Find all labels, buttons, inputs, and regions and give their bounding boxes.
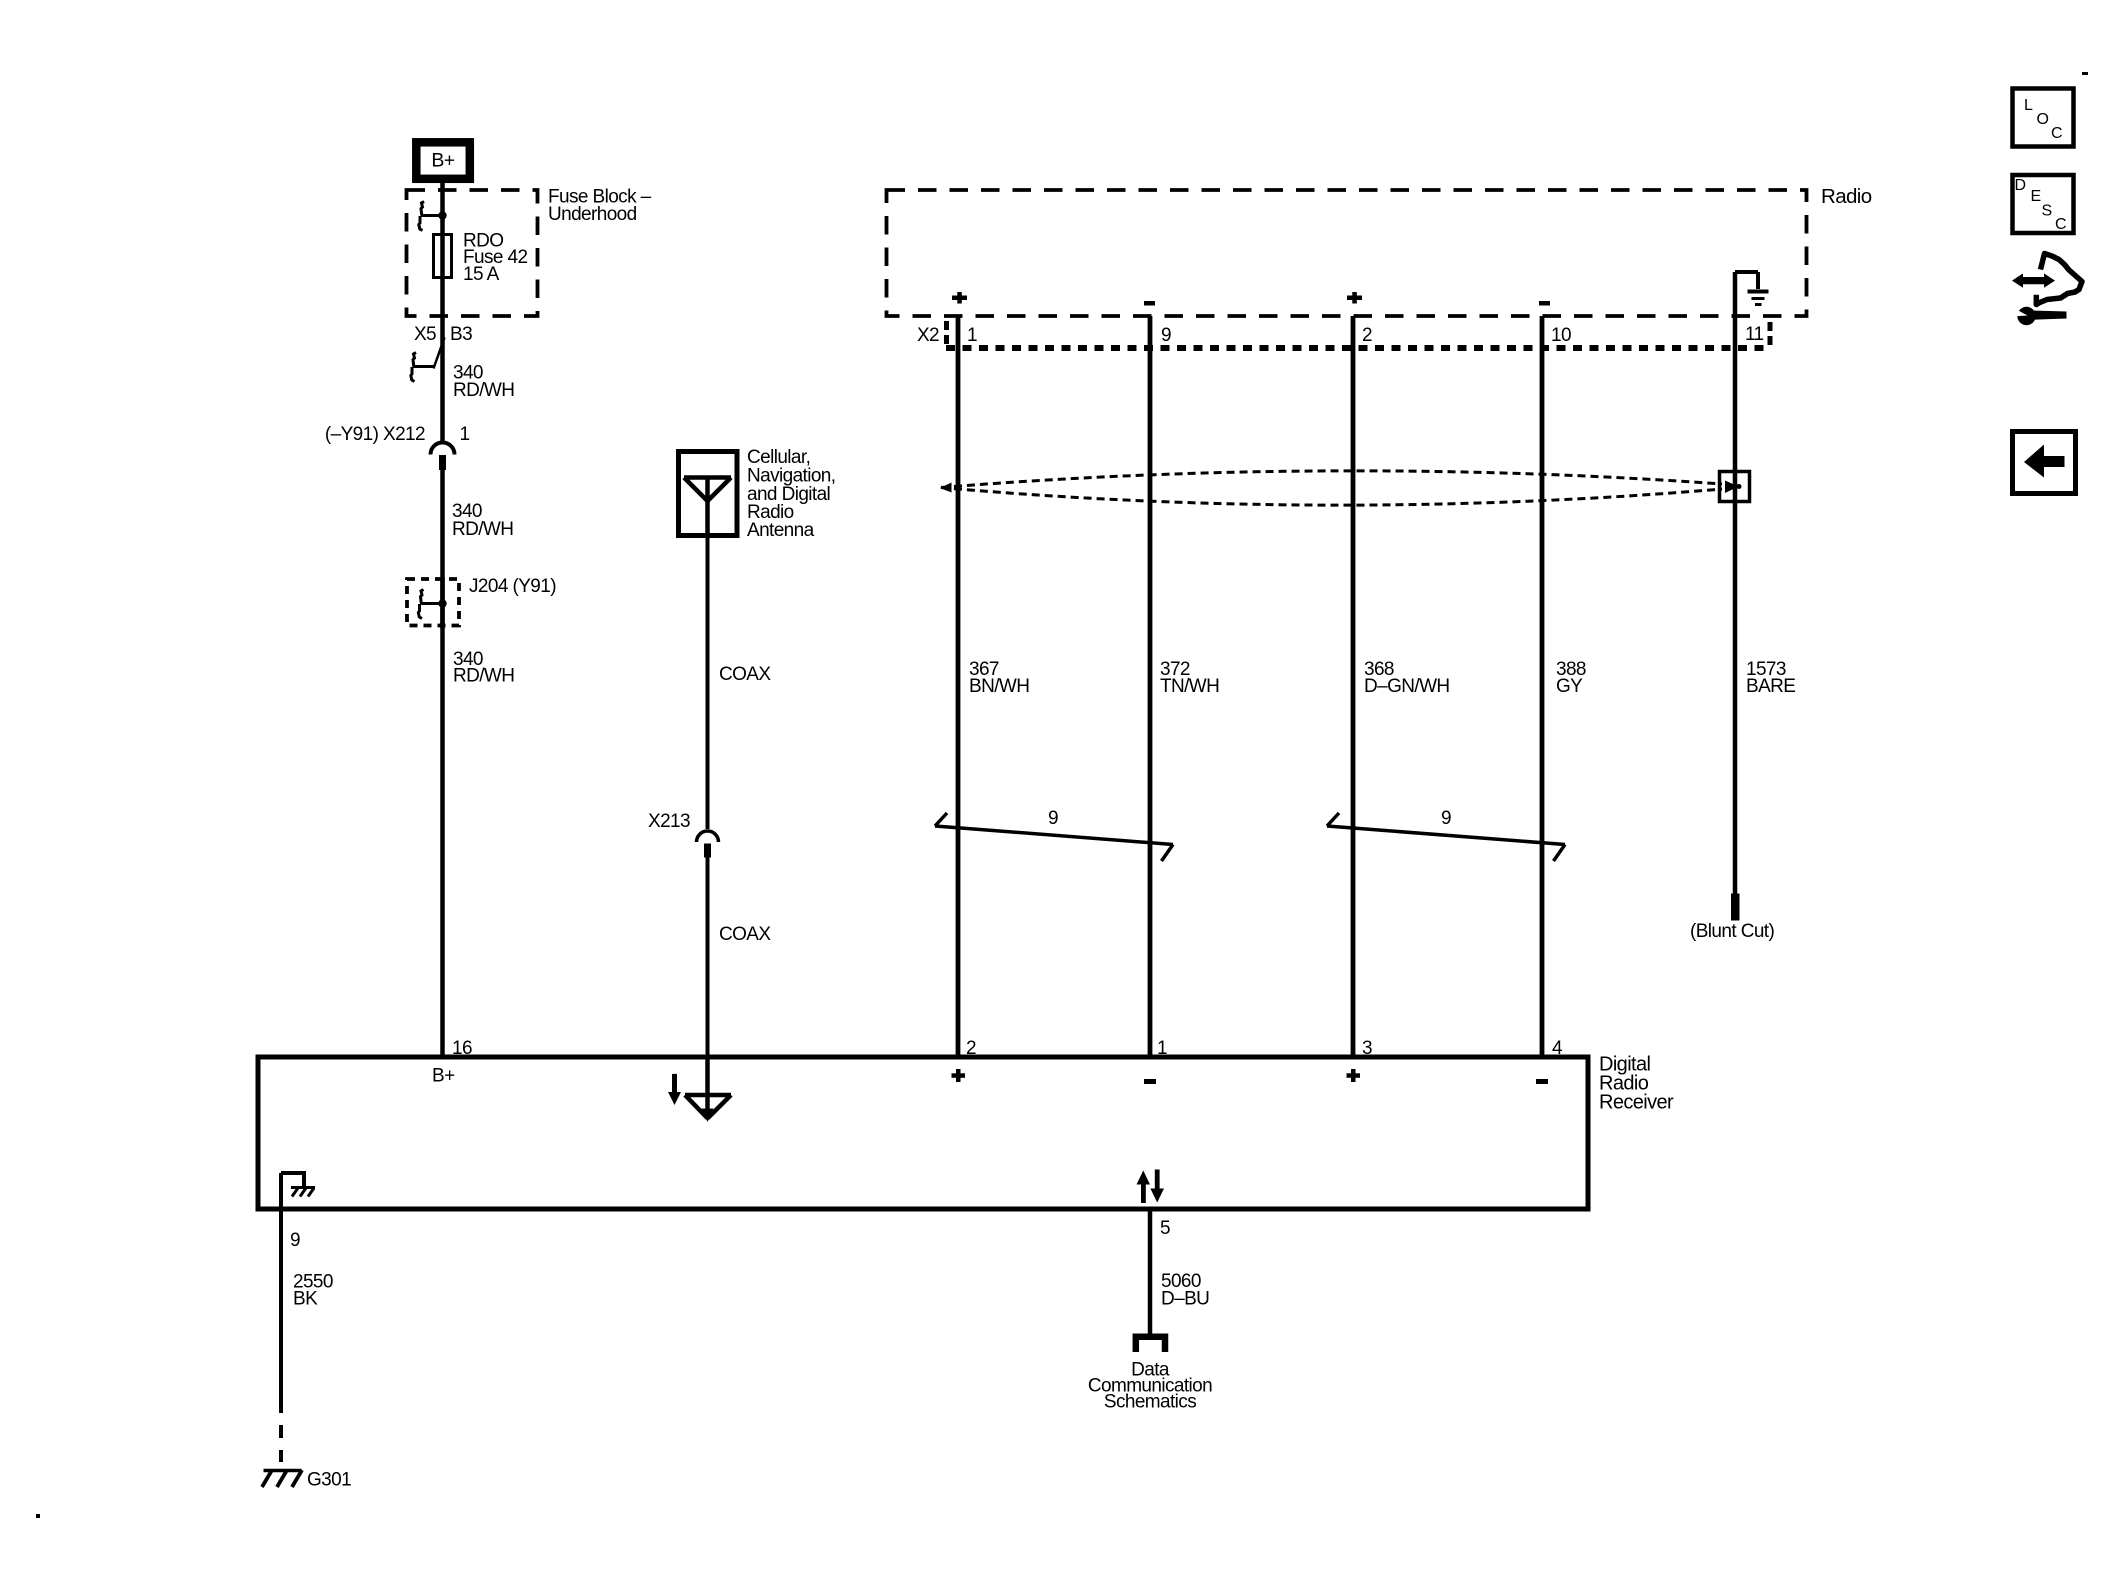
connector row X2 (dotted strip) xyxy=(946,321,1770,348)
wire label 388 GY xyxy=(1556,659,1586,697)
wire label 340 RD/WH (2) xyxy=(452,501,513,540)
wire label 340 RD/WH (1) xyxy=(453,363,514,402)
receiver polarity marks xyxy=(952,1069,1549,1084)
power feed symbol B+ xyxy=(416,142,470,179)
radio (dashed box) xyxy=(887,190,1807,316)
svg-text:S: S xyxy=(2042,203,2052,220)
scan artifact top right xyxy=(2082,72,2088,75)
svg-text:X2: X2 xyxy=(917,325,939,346)
coax wire antenna to X213 xyxy=(706,535,710,829)
svg-text:D–BU: D–BU xyxy=(1161,1289,1209,1310)
terminal clip in J204 xyxy=(418,590,442,619)
svg-text:9: 9 xyxy=(1161,325,1171,346)
svg-text:2: 2 xyxy=(1362,325,1372,346)
svg-text:B+: B+ xyxy=(432,1066,455,1087)
receiver antenna input arrow xyxy=(668,1074,681,1105)
shield termination box on drain wire xyxy=(1720,472,1750,502)
return arrow box xyxy=(2013,432,2076,494)
svg-text:E: E xyxy=(2031,188,2041,205)
wire 1573 BARE drain radio pin 11 to blunt cut xyxy=(1733,272,1738,894)
receiver pin 5 wire 5060 D-BU xyxy=(1148,1211,1153,1334)
wire label 2550 BK xyxy=(293,1272,333,1310)
receiver antenna symbol xyxy=(685,1057,731,1122)
ground G301 xyxy=(262,1470,351,1491)
svg-text:O: O xyxy=(2037,111,2049,128)
receiver pin numbers top xyxy=(452,1038,1563,1059)
shield drain crossover symbol (right pair) pin 9 xyxy=(1327,808,1565,861)
svg-text:C: C xyxy=(2051,125,2062,142)
schematic navigation icon (arrow + wrench) xyxy=(2011,254,2082,326)
svg-text:9: 9 xyxy=(1048,808,1058,829)
svg-text:4: 4 xyxy=(1552,1038,1563,1059)
connector X5 terminal B3 xyxy=(414,324,472,369)
svg-text:COAX: COAX xyxy=(719,664,771,685)
junction dot in J204 xyxy=(438,599,446,607)
antenna box (Cellular Navigation Digital Radio Antenna) xyxy=(679,452,738,536)
svg-text:10: 10 xyxy=(1551,325,1571,346)
label digital radio receiver xyxy=(1599,1054,1674,1114)
blunt cut end of drain wire xyxy=(1690,894,1774,943)
connector X213 xyxy=(648,811,719,858)
pin labels X2 row xyxy=(967,324,1764,346)
svg-text:BK: BK xyxy=(293,1289,318,1310)
svg-text:D: D xyxy=(2015,177,2026,194)
wire 372 TN/WH radio pin 9 to receiver pin 1 xyxy=(1148,316,1153,1057)
coax wire X213 to receiver xyxy=(706,857,710,1057)
wire 367 BN/WH radio pin 1 to receiver pin 2 xyxy=(956,316,961,1057)
svg-text:2: 2 xyxy=(966,1038,976,1059)
svg-text:RD/WH: RD/WH xyxy=(453,666,514,687)
svg-text:(Blunt Cut): (Blunt Cut) xyxy=(1690,921,1774,942)
fuse RDO 42 15A xyxy=(434,235,452,278)
radio polarity marks xyxy=(952,292,1550,306)
svg-text:3: 3 xyxy=(1362,1038,1372,1059)
svg-text:11: 11 xyxy=(1745,324,1764,345)
fuse block underhood (dashed box) xyxy=(407,190,538,316)
label fuse RDO 42 15A xyxy=(463,231,527,286)
inline connector X212 pin 1 label xyxy=(325,424,470,445)
svg-text:GY: GY xyxy=(1556,676,1583,697)
svg-text:1: 1 xyxy=(1157,1038,1167,1059)
svg-text:Schematics: Schematics xyxy=(1104,1392,1196,1413)
digital radio receiver box xyxy=(258,1057,1588,1209)
wire label 5060 D-BU xyxy=(1161,1271,1209,1310)
wire 340 RD/WH from X212 to J204 xyxy=(440,470,445,628)
wire label 372 TN/WH xyxy=(1160,659,1219,697)
twisted pair indicator (dashed ellipse) xyxy=(940,471,1722,505)
svg-text:BARE: BARE xyxy=(1746,676,1795,697)
DESC legend box xyxy=(2013,175,2074,233)
splice pack J204 (dashed box) xyxy=(407,579,459,626)
wire 340 RD/WH from J204 to receiver pin 16 xyxy=(440,577,445,1057)
svg-text:G301: G301 xyxy=(307,1470,351,1491)
receiver internal chassis ground pin 9 xyxy=(281,1171,315,1211)
svg-text:9: 9 xyxy=(290,1230,300,1251)
svg-text:16: 16 xyxy=(452,1038,472,1059)
svg-text:J204 (Y91): J204 (Y91) xyxy=(469,576,556,597)
LOC legend box xyxy=(2013,89,2074,147)
svg-text:B+: B+ xyxy=(431,150,454,172)
antenna symbol inside antenna box xyxy=(684,478,731,536)
svg-text:Radio: Radio xyxy=(1821,185,1872,208)
svg-text:1: 1 xyxy=(460,424,470,445)
svg-text:X5: X5 xyxy=(414,324,436,345)
wire 340 RD/WH from B+ to connector X212 xyxy=(440,182,445,441)
svg-text:1: 1 xyxy=(967,325,977,346)
label data communication schematics xyxy=(1088,1360,1212,1413)
svg-text:L: L xyxy=(2024,97,2033,114)
junction dot in fuse block xyxy=(438,211,446,219)
receiver pin 9 wire 2550 BK xyxy=(279,1211,283,1462)
svg-text:C: C xyxy=(2055,216,2066,233)
terminal clip in fuse block xyxy=(419,202,443,231)
svg-text:Underhood: Underhood xyxy=(548,204,637,225)
wire label 367 BN/WH xyxy=(969,659,1029,697)
svg-text:B3: B3 xyxy=(450,324,472,345)
svg-text:RD/WH: RD/WH xyxy=(453,380,514,401)
shield drain crossover symbol (left pair) pin 9 xyxy=(935,808,1173,861)
label antenna xyxy=(747,447,835,541)
wire label 1573 BARE xyxy=(1746,659,1795,697)
svg-text:5: 5 xyxy=(1160,1218,1170,1239)
svg-text:(–Y91) X212: (–Y91) X212 xyxy=(325,424,425,445)
label fuse block xyxy=(548,187,652,226)
svg-text:BN/WH: BN/WH xyxy=(969,676,1029,697)
svg-text:D–GN/WH: D–GN/WH xyxy=(1364,676,1450,697)
wire label 340 RD/WH (3) xyxy=(453,649,514,687)
svg-text:RD/WH: RD/WH xyxy=(452,519,513,540)
svg-text:X213: X213 xyxy=(648,811,690,832)
svg-text:Antenna: Antenna xyxy=(747,520,815,541)
svg-text:15 A: 15 A xyxy=(463,264,500,285)
radio internal ground pin 11 xyxy=(1735,272,1769,305)
connector X212 female/male terminal xyxy=(431,443,455,471)
svg-text:TN/WH: TN/WH xyxy=(1160,676,1219,697)
svg-text:9: 9 xyxy=(1441,808,1451,829)
off-page connector to data communication schematics xyxy=(1136,1337,1165,1352)
receiver CAN arrows pin 5 xyxy=(1137,1170,1165,1204)
scan artifact bottom left xyxy=(36,1514,40,1518)
wire 368 D-GN/WH radio pin 2 to receiver pin 3 xyxy=(1351,316,1356,1057)
svg-text:Receiver: Receiver xyxy=(1599,1092,1674,1114)
wire label 368 D-GN/WH xyxy=(1364,659,1450,697)
svg-text:COAX: COAX xyxy=(719,924,771,945)
wire 388 GY radio pin 10 to receiver pin 4 xyxy=(1540,316,1545,1057)
terminal clip at X5 B3 xyxy=(411,353,435,382)
